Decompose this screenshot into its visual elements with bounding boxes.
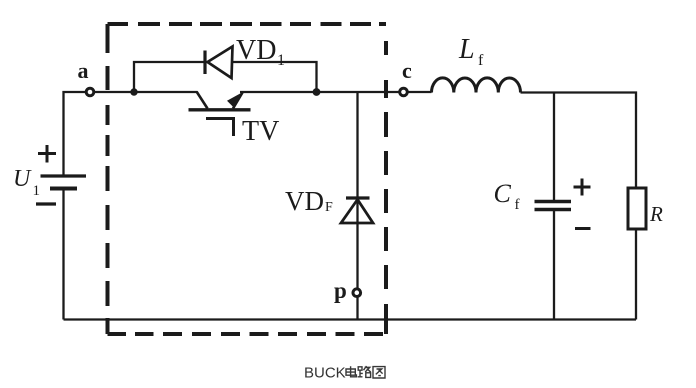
- battery U1 positive plate: [41, 174, 87, 177]
- wire: inductor to load corner: [521, 93, 637, 189]
- svg-text:U: U: [13, 166, 32, 192]
- wire: VD1 branch: [134, 62, 317, 92]
- svg-text:TV: TV: [242, 116, 279, 147]
- diode VDF triangle: [341, 200, 373, 224]
- svg-text:VD: VD: [236, 35, 276, 66]
- node a circle: [86, 88, 94, 96]
- svg-text:BUCK: BUCK: [304, 365, 346, 382]
- caption CJK dian (drawn): [346, 366, 385, 378]
- battery plus sign: [38, 145, 56, 163]
- transistor TV emitter arrow: [227, 93, 242, 109]
- dashed box left edge: [106, 24, 110, 334]
- battery U1 negative plate: [50, 187, 77, 191]
- svg-text:R: R: [649, 202, 663, 226]
- wire: source top rail corner: [64, 92, 198, 176]
- wire: source bottom lead: [62, 189, 64, 320]
- resistor R body: [628, 188, 646, 229]
- transistor TV bar: [189, 108, 251, 111]
- inductor Lf: [432, 78, 521, 93]
- svg-text:C: C: [494, 179, 512, 208]
- capacitor Cf bottom plate: [535, 208, 572, 211]
- svg-text:p: p: [334, 278, 347, 303]
- diode VD1 cathode bar: [203, 51, 206, 75]
- wire: VDF lower lead: [356, 223, 358, 320]
- svg-text:VD: VD: [285, 186, 324, 216]
- caption CJK lu (drawn): [358, 366, 371, 377]
- svg-text:1: 1: [277, 52, 285, 69]
- svg-text:F: F: [325, 200, 333, 215]
- svg-text:1: 1: [33, 183, 41, 199]
- diode VD1 triangle: [208, 47, 233, 79]
- transistor TV gate lead: [206, 119, 234, 137]
- wire: resistor bottom lead: [635, 229, 637, 320]
- wire: capacitor bottom lead: [553, 210, 555, 320]
- svg-text:a: a: [78, 58, 89, 83]
- capacitor plus sign: [574, 179, 591, 196]
- battery minus sign: [36, 202, 56, 205]
- transistor TV collector diagonal: [197, 92, 208, 109]
- transistor TV emitter diagonal: [233, 93, 243, 109]
- svg-text:c: c: [402, 58, 412, 83]
- wire: transistor emitter to inductor: [240, 91, 432, 93]
- diode VDF cathode bar: [346, 196, 370, 199]
- capacitor Cf top plate: [535, 200, 572, 203]
- wire: capacitor top lead: [553, 93, 555, 202]
- wire: VDF upper lead: [356, 92, 358, 223]
- dashed box right edge: [384, 41, 388, 334]
- dashed box bottom edge: [108, 332, 384, 336]
- node c circle: [400, 88, 408, 96]
- svg-text:f: f: [478, 52, 484, 69]
- junction dot (left of VD1 branch): [130, 88, 137, 95]
- wire: bottom rail: [64, 318, 637, 320]
- dashed box top edge: [108, 22, 387, 26]
- svg-text:L: L: [458, 34, 475, 65]
- svg-text:f: f: [515, 197, 520, 213]
- capacitor minus sign: [575, 227, 591, 230]
- junction dot (right of VD1 branch): [313, 88, 321, 96]
- caption CJK tu (drawn): [373, 367, 385, 378]
- node p circle: [353, 289, 361, 297]
